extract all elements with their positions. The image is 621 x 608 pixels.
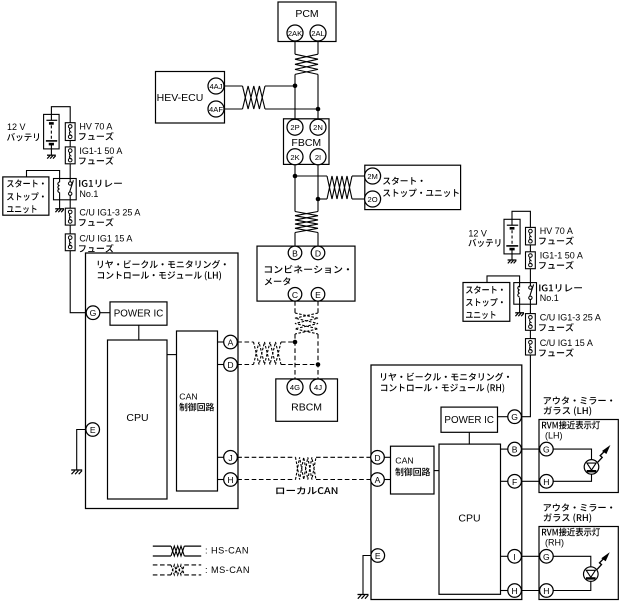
LH module pin G (86, 306, 100, 320)
svg-text:H: H (511, 586, 517, 596)
meter pin B (288, 246, 302, 260)
FBCM pin 2K (287, 149, 303, 165)
fuse C/U IG1 15A (left) (65, 234, 75, 251)
mirror LH pin G (540, 442, 554, 456)
fuse HV 70A (left) (65, 123, 75, 141)
wire HEV-ECU 4AF to twist (224, 108, 243, 110)
node junction MS-CAN left (293, 340, 298, 345)
MS-CAN dashed bus to RBCM 4G (294, 334, 296, 379)
svg-text:: HS-CAN: : HS-CAN (205, 546, 249, 556)
svg-text:D: D (374, 453, 380, 463)
wire LED cathode to mirror H (RH) (553, 581, 591, 590)
HS-CAN twisted pair PCM-FBCM (295, 54, 318, 74)
label IG1-1 50A fuse (right) (539, 250, 583, 269)
wire RH pin F to mirror pin H (521, 480, 539, 482)
svg-text:FBCM: FBCM (291, 137, 321, 149)
svg-text:HV 70 A: HV 70 A (540, 226, 573, 236)
label C/U IG1-3 25A fuse (left) (79, 207, 140, 226)
wire RH pin H to mirror pin H (521, 590, 539, 592)
node junction MS-CAN right (316, 362, 321, 367)
legend MS-CAN label (205, 565, 250, 575)
svg-text:B: B (292, 248, 298, 258)
wire pin E to ground (RH) (363, 556, 371, 595)
label IG1-1 50A fuse (left) (79, 146, 122, 165)
wire battery negative to ground (right) (511, 249, 513, 260)
svg-text:4AJ: 4AJ (209, 82, 222, 91)
legend HS-CAN label (205, 546, 249, 556)
svg-text:2I: 2I (315, 153, 321, 162)
fuse C/U IG1-3 25A (left) (65, 208, 75, 225)
svg-text:IG1-1 50 A: IG1-1 50 A (79, 146, 122, 156)
wire fuse chain to LH module pin G (70, 251, 86, 313)
svg-text:A: A (375, 475, 381, 485)
ground RH module (358, 595, 369, 599)
HS-CAN twisted pair FBCM-meter (295, 212, 318, 233)
start-stop unit pin 2O (365, 191, 381, 207)
MS-CAN dashed wire LH module D to twist (237, 364, 253, 366)
node junction HEV-ECU CAN-L (316, 107, 321, 112)
label local CAN (276, 487, 337, 495)
wire twist to meter pin B (294, 233, 296, 247)
CAN control circuit box (LH) (177, 331, 218, 491)
wire fuse to relay (right) (529, 269, 531, 289)
svg-text:CAN: CAN (179, 392, 197, 402)
wire battery positive to fuse chain (right) (512, 211, 530, 227)
wire POWER IC to CPU (138, 325, 140, 340)
label outer mirror glass RH (544, 503, 613, 522)
svg-text:4AF: 4AF (209, 105, 223, 114)
MS-CAN twisted pair meter-RBCM (295, 313, 318, 334)
ground relay coil (right) (515, 313, 524, 316)
svg-text:2O: 2O (368, 195, 378, 204)
RH module pin D (371, 451, 385, 465)
wire mirror G to LED anode (553, 449, 591, 460)
svg-text:J: J (228, 453, 232, 463)
MS-CAN dashed wire twist to right junction (281, 364, 318, 366)
meter pin E (311, 288, 325, 302)
FBCM pin 2N (310, 119, 326, 135)
CAN control circuit box (RH) (391, 446, 435, 494)
RH module pin G (508, 410, 522, 424)
battery B2 (right) (504, 219, 520, 254)
LED arrow RH (597, 552, 610, 569)
MS-CAN dashed wire twist to left junction (281, 341, 295, 343)
wire battery negative to ground (50, 145, 52, 156)
RH module pin F (508, 475, 522, 489)
svg-text:H: H (543, 477, 549, 487)
wire fuse to relay (69, 164, 71, 184)
wire fuse to fuse (69, 141, 71, 147)
label C/U IG1 15A fuse (left) (79, 234, 132, 253)
wire pin A to CAN circuit (384, 479, 390, 481)
svg-text:I: I (513, 552, 515, 562)
wire CPU to pin F (501, 480, 508, 482)
mirror LH pin H (540, 475, 554, 489)
RH module pin H (508, 584, 522, 598)
ground LH module (71, 470, 82, 474)
svg-text:2K: 2K (290, 153, 299, 162)
PCM pin 2AL (310, 25, 326, 41)
node junction start-stop CAN-L (316, 197, 321, 202)
svg-text:HV 70 A: HV 70 A (79, 121, 112, 131)
PCM pin 2AK (287, 25, 303, 41)
svg-text:B: B (512, 445, 518, 455)
MS-CAN dashed wire meter E down (317, 301, 319, 313)
HEV-ECU module box (156, 72, 225, 124)
label HV 70A fuse (left) (79, 121, 114, 140)
svg-text:4G: 4G (290, 383, 300, 392)
12V battery label (right) (468, 229, 500, 247)
HS-CAN twisted pair HEV-ECU (243, 86, 266, 109)
wire CAN circuit to pin A (218, 341, 224, 343)
label IG1 relay No.1 (right) (539, 284, 582, 303)
RVM approach indicator RH box (539, 527, 618, 600)
RVM approach indicator LH box (539, 420, 618, 493)
wire mirror G to LED anode (RH) (553, 556, 591, 567)
wire relay coil to ground (59, 193, 61, 209)
node junction start-stop CAN-H (293, 174, 298, 179)
wire relay coil to ground (right) (519, 298, 521, 313)
local CAN dashed wire twist to RH pin A (316, 479, 371, 481)
svg-text:No.1: No.1 (79, 189, 98, 199)
fuse C/U IG1-3 25A (right) (526, 314, 536, 331)
fuse IG1-1 50A (left) (65, 147, 75, 164)
mirror RH pin H (540, 584, 554, 598)
wire junction to start-stop twist bottom (318, 198, 327, 200)
RH module pin B (508, 442, 522, 456)
label C/U IG1-3 25A fuse (right) (539, 313, 601, 332)
HEV-ECU pin 4AJ (208, 78, 224, 94)
svg-text:G: G (90, 308, 97, 318)
HS-CAN twisted pair start-stop unit (327, 176, 352, 199)
svg-text:E: E (375, 551, 381, 561)
FBCM pin 2P (287, 119, 303, 135)
RH module pin E (371, 549, 385, 563)
POWER IC box (LH) (110, 302, 167, 325)
meter pin C (288, 288, 302, 302)
LED RVM approach indicator RH (584, 567, 599, 582)
PCM module box (278, 2, 336, 42)
wire twist to CAN-L junction (265, 108, 318, 110)
wire CAN circuit to pin D (218, 364, 224, 366)
RH module pin I (508, 550, 522, 564)
wire CPU to CAN circuit (167, 354, 177, 356)
RBCM pin 4J (310, 379, 326, 395)
svg-text:POWER IC: POWER IC (444, 415, 494, 426)
svg-text:RBCM: RBCM (291, 402, 322, 414)
relay IG1 No.1 (right) (514, 283, 537, 305)
12V battery label (left) (7, 122, 39, 141)
MS-CAN dashed bus to RBCM 4J (317, 334, 319, 379)
svg-text:H: H (543, 586, 549, 596)
LH module pin E (86, 423, 100, 437)
wire POWER IC to pin G (498, 416, 508, 418)
wire fuse to fuse (right) (529, 245, 531, 252)
svg-text:CPU: CPU (458, 513, 480, 525)
label C/U IG1 15A fuse (right) (539, 338, 593, 357)
svg-text:D: D (315, 248, 321, 258)
svg-text:F: F (512, 477, 517, 487)
local CAN twisted pair (296, 457, 317, 479)
svg-text:4J: 4J (314, 383, 322, 392)
node junction HEV-ECU CAN-H (293, 84, 298, 89)
start-stop unit box (right) (463, 283, 510, 322)
svg-text:CAN: CAN (395, 456, 413, 466)
svg-text:C/U IG1 15 A: C/U IG1 15 A (540, 338, 593, 348)
svg-text:2P: 2P (290, 123, 299, 132)
RBCM module box (276, 379, 338, 421)
svg-text:E: E (315, 290, 321, 300)
wire junction to start-stop twist top (295, 175, 327, 177)
MS-CAN twisted pair LH module (254, 342, 282, 365)
wire start-stop unit to relay coil (27, 171, 60, 183)
LH module pin A (224, 335, 238, 349)
RBCM pin 4G (287, 379, 303, 395)
CPU box (LH) (108, 340, 168, 499)
POWER IC box (RH) (441, 407, 498, 432)
wire CPU to pin B (501, 448, 508, 450)
wire POWER IC to CPU (RH) (468, 432, 470, 444)
wire FBCM 2I down to meter twist (317, 165, 319, 212)
HEV-ECU pin 4AF (208, 101, 224, 117)
svg-text:2AK: 2AK (288, 29, 302, 38)
local CAN dashed wire J to twist (237, 456, 295, 458)
svg-text:IG1-1 50 A: IG1-1 50 A (540, 250, 583, 260)
svg-text:C/U IG1-3 25 A: C/U IG1-3 25 A (540, 313, 601, 323)
wire fuse to fuse (69, 225, 71, 234)
svg-text:C/U IG1 15 A: C/U IG1 15 A (79, 234, 132, 244)
LH module pin H (224, 473, 238, 487)
fuse C/U IG1 15A (right) (526, 339, 536, 355)
legend HS-CAN twisted pair sample (153, 546, 201, 556)
wire RH pin B to mirror pin G (521, 448, 539, 450)
ground battery (left) (47, 155, 56, 158)
label outer mirror glass LH (544, 396, 613, 415)
wire twist to FBCM 2P (294, 74, 296, 119)
mirror RH pin G (540, 550, 554, 564)
wire PCM 2AL down to twist (317, 42, 319, 55)
local CAN dashed wire twist to RH pin D (316, 456, 371, 458)
combination meter box (257, 246, 355, 301)
fuse HV 70A (right) (526, 227, 536, 245)
wire pin D to CAN circuit (384, 456, 390, 458)
svg-text:POWER IC: POWER IC (114, 309, 164, 320)
svg-text:G: G (511, 412, 518, 422)
wire twist to pin 2M (352, 175, 365, 177)
wire twist to pin 2O (352, 198, 365, 200)
wire start-stop unit to relay coil (right) (487, 276, 520, 288)
wire pin G to POWER IC (100, 312, 110, 314)
meter pin D (311, 246, 325, 260)
FBCM module box (284, 119, 330, 165)
svg-text:12 V: 12 V (7, 122, 26, 132)
svg-text:12 V: 12 V (468, 229, 487, 239)
start-stop unit pin 2M (365, 168, 381, 184)
ground battery (right) (508, 260, 517, 263)
wire CAN circuit to pin H (218, 479, 224, 481)
wire CAN circuit to pin J (218, 456, 224, 458)
svg-text:(RH): (RH) (545, 538, 564, 548)
start-stop unit box (left) (3, 177, 49, 215)
relay IG1 No.1 (left) (54, 179, 77, 200)
rear vehicle monitoring control module LH box (86, 253, 239, 509)
wire fuse chain to RH module pin G (522, 355, 531, 417)
svg-text:C/U IG1-3 25 A: C/U IG1-3 25 A (79, 207, 140, 217)
wire PCM 2AK down to twist (294, 42, 296, 55)
svg-text:2N: 2N (313, 123, 323, 132)
label IG1 relay No.1 (left) (79, 180, 122, 199)
svg-text:A: A (228, 338, 234, 348)
wire twist to CAN-H junction (265, 85, 295, 87)
svg-text:2M: 2M (367, 172, 378, 181)
wire CPU to pin H (501, 590, 508, 592)
svg-text:E: E (90, 425, 96, 435)
legend MS-CAN twisted pair sample (153, 565, 201, 575)
wire CAN circuit to CPU (RH) (434, 470, 439, 472)
wire fuse to fuse (right) (529, 330, 531, 338)
svg-text:C: C (292, 290, 298, 300)
rear vehicle monitoring control module RH box (371, 365, 522, 600)
RH module pin A (371, 473, 385, 487)
battery B1 (left) (44, 114, 60, 148)
CPU box (RH) (439, 444, 501, 594)
svg-text:H: H (227, 475, 233, 485)
svg-text:CPU: CPU (126, 412, 148, 424)
svg-text:(LH): (LH) (545, 431, 563, 441)
LH module pin D (224, 358, 238, 372)
svg-text:G: G (543, 552, 550, 562)
wire twist to meter pin D (317, 233, 319, 247)
svg-text:G: G (543, 445, 550, 455)
MS-CAN dashed wire meter C down (294, 301, 296, 313)
LED RVM approach indicator LH (584, 460, 599, 475)
wire relay to fuse (right) (529, 299, 531, 314)
MS-CAN dashed wire LH module A to twist (237, 341, 253, 343)
label HV 70A fuse (right) (539, 226, 574, 245)
svg-text:: MS-CAN: : MS-CAN (205, 565, 250, 575)
ground relay coil (left) (55, 209, 64, 212)
LH module pin J (224, 451, 238, 465)
start-stop unit box (top) (365, 165, 461, 209)
svg-text:D: D (227, 360, 233, 370)
FBCM pin 2I (310, 149, 326, 165)
wire battery positive to fuse chain (51, 107, 70, 123)
LED arrow LH (598, 445, 611, 462)
svg-text:No.1: No.1 (540, 293, 559, 303)
wire twist to FBCM 2N (317, 74, 319, 119)
wire FBCM 2K down to meter twist (294, 165, 296, 212)
svg-text:2AL: 2AL (311, 29, 325, 38)
local CAN dashed wire H to twist (237, 479, 295, 481)
svg-text:HEV-ECU: HEV-ECU (157, 92, 204, 104)
fuse IG1-1 50A (right) (526, 252, 536, 269)
svg-text:PCM: PCM (295, 8, 318, 20)
wire LED cathode to mirror H (553, 474, 591, 481)
wire RH pin I to mirror pin G (521, 555, 539, 557)
wire CPU to pin I (501, 555, 508, 557)
wire relay to fuse (69, 195, 71, 208)
wire pin E to ground (77, 430, 86, 471)
wire HEV-ECU 4AJ to twist (224, 85, 243, 87)
